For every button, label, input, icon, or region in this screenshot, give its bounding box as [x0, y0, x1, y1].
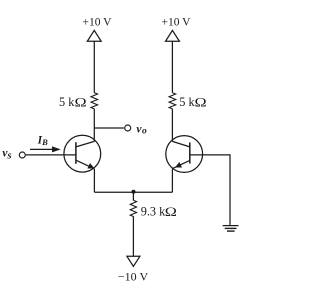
svg-text:Ω: Ω	[165, 206, 177, 220]
svg-text:−10 V: −10 V	[118, 270, 149, 284]
svg-text:Ω: Ω	[195, 96, 207, 110]
svg-text:vs: vs	[2, 148, 11, 162]
svg-text:5 k: 5 k	[179, 95, 195, 109]
svg-text:+10 V: +10 V	[83, 17, 113, 29]
svg-text:+10 V: +10 V	[162, 17, 192, 29]
svg-text:5 k: 5 k	[59, 95, 75, 109]
svg-text:IB: IB	[37, 135, 48, 147]
svg-text:9.3 k: 9.3 k	[141, 205, 166, 219]
svg-text:Ω: Ω	[75, 96, 87, 110]
